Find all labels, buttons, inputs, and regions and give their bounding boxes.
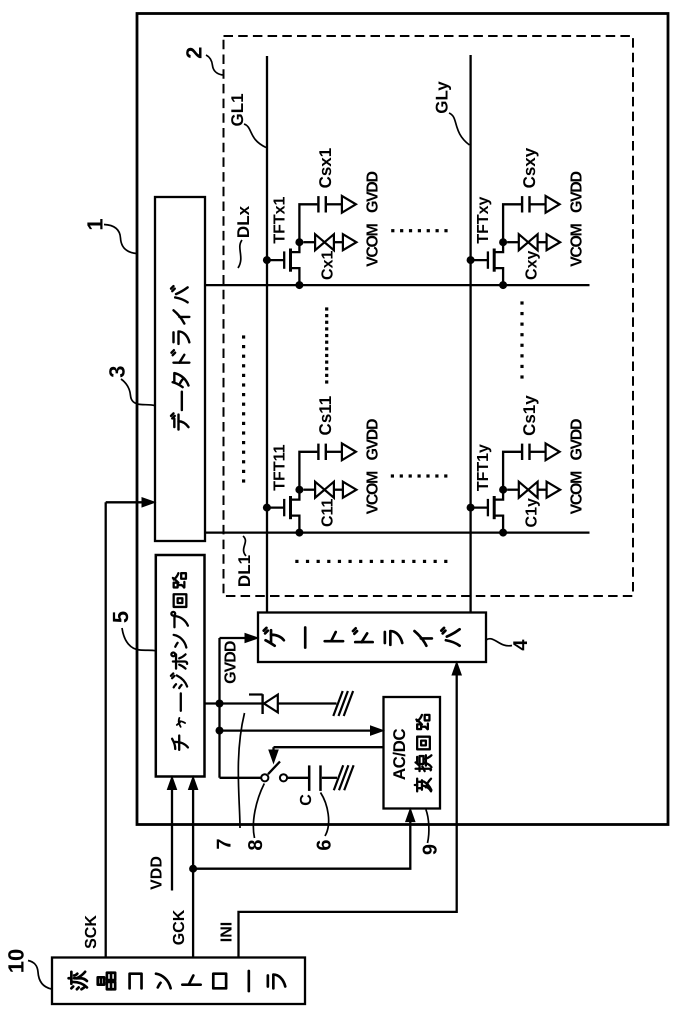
svg-text:1: 1 — [83, 218, 108, 230]
svg-text:8: 8 — [245, 839, 267, 850]
svg-text:C1y: C1y — [523, 498, 540, 527]
svg-text:VCOM: VCOM — [568, 471, 585, 514]
svg-text:Cs1y: Cs1y — [520, 395, 539, 436]
svg-text:C: C — [298, 794, 315, 806]
svg-text:2: 2 — [182, 47, 207, 59]
svg-text:4: 4 — [510, 639, 532, 651]
svg-text:C11: C11 — [320, 498, 337, 527]
svg-text:TFTxy: TFTxy — [475, 196, 492, 243]
svg-text:SCK: SCK — [83, 915, 100, 949]
svg-text:GVDD: GVDD — [568, 172, 585, 213]
svg-text:9: 9 — [420, 844, 442, 855]
svg-text:Csx1: Csx1 — [316, 148, 335, 189]
svg-text:VCOM: VCOM — [365, 223, 382, 266]
svg-text:TFT1y: TFT1y — [475, 444, 492, 491]
svg-text:INI: INI — [219, 922, 236, 942]
svg-text:TFT11: TFT11 — [271, 444, 288, 490]
svg-text:Csxy: Csxy — [520, 147, 539, 188]
svg-text:GVDD: GVDD — [365, 172, 382, 213]
svg-text:GL1: GL1 — [228, 93, 247, 126]
svg-text:DLx: DLx — [234, 205, 253, 238]
svg-text:Cx1: Cx1 — [320, 251, 337, 280]
svg-text:GVDD: GVDD — [223, 641, 240, 684]
svg-text:6: 6 — [314, 839, 336, 850]
svg-text:AC/DC: AC/DC — [390, 729, 409, 781]
svg-text:VDD: VDD — [149, 856, 166, 890]
svg-text:TFTx1: TFTx1 — [271, 196, 288, 243]
svg-text:5: 5 — [108, 611, 133, 623]
svg-text:Cs11: Cs11 — [316, 396, 335, 436]
svg-text:GVDD: GVDD — [365, 419, 382, 460]
svg-text:VCOM: VCOM — [568, 223, 585, 266]
svg-text:GLy: GLy — [433, 81, 452, 114]
svg-text:10: 10 — [3, 949, 28, 973]
svg-text:7: 7 — [214, 838, 236, 849]
svg-text:3: 3 — [104, 365, 129, 377]
svg-text:GCK: GCK — [171, 909, 188, 945]
svg-text:Cxy: Cxy — [523, 251, 540, 280]
svg-text:DL1: DL1 — [235, 555, 254, 587]
svg-text:VCOM: VCOM — [365, 471, 382, 514]
svg-text:GVDD: GVDD — [568, 419, 585, 460]
